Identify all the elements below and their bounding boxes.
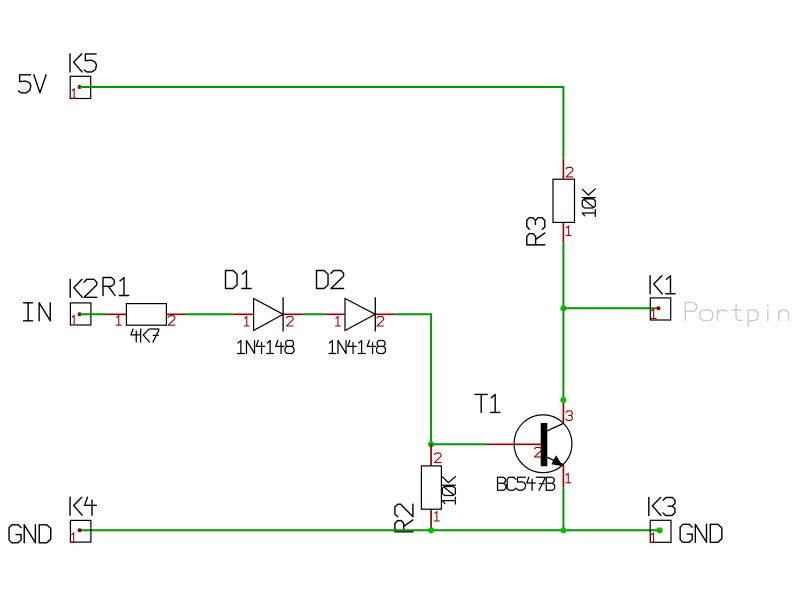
label K4 — [70, 497, 96, 515]
value 4K7 of R1 — [131, 329, 159, 342]
wire 5V vertical to R3 — [562, 86, 564, 159]
pin 1 of K5 — [72, 89, 77, 99]
net label 5V — [19, 75, 47, 93]
pin 1 of K2 — [72, 315, 77, 325]
pin 1 of R3 — [566, 226, 571, 236]
connector K5 — [70, 76, 91, 98]
label K3 — [649, 498, 675, 516]
pin 1 of K3 — [651, 533, 656, 543]
wire K2 to R1 — [80, 313, 107, 315]
connector K1 — [650, 298, 670, 320]
label K5 — [70, 54, 96, 72]
wire D2 down to node B — [395, 314, 431, 444]
label R3 — [527, 218, 545, 245]
pin 1 of R2 — [434, 512, 439, 522]
pin 1 of K1 — [651, 309, 656, 319]
pin 1 of D2 — [336, 317, 341, 327]
wire R1 to D1 — [186, 313, 233, 315]
wire 5V horizontal — [80, 86, 564, 88]
pin 3 of T1 — [566, 411, 572, 421]
net label GND right — [680, 524, 722, 542]
node B junction — [428, 441, 434, 447]
value 10K of R2 — [442, 477, 455, 504]
label K1 — [650, 276, 675, 294]
value 10K of R3 — [582, 189, 595, 216]
node E junction at K3 — [657, 527, 663, 533]
pin 2 of D2 — [377, 317, 384, 327]
pin 2 of R3 — [566, 167, 573, 177]
net label IN — [24, 303, 51, 321]
diode D1 — [234, 297, 303, 331]
resistor R1 — [107, 304, 187, 326]
pin 2 of D1 — [287, 317, 294, 327]
label D1 — [226, 271, 252, 289]
pin 1 of T1 — [566, 473, 571, 483]
label K2 — [70, 279, 96, 297]
label R1 — [103, 278, 129, 296]
pin 2 of T1 — [535, 447, 542, 457]
net label GND left — [9, 525, 51, 543]
wire to K1 — [563, 307, 658, 309]
label D2 — [317, 271, 344, 289]
value 1N4148 of D2 — [329, 341, 385, 354]
pin 1 of K4 — [71, 533, 76, 543]
node C junction — [428, 527, 434, 533]
pin 1 of D1 — [244, 317, 249, 327]
node A junction — [560, 305, 566, 311]
pin 2 of R1 — [168, 316, 175, 326]
wire GND rail — [80, 529, 660, 531]
wire node B to T1 base — [431, 443, 486, 445]
wire T1 emitter to GND rail — [562, 487, 564, 530]
node F junction at collector — [560, 397, 566, 403]
transistor T1 — [486, 403, 572, 487]
resistor R2 — [421, 444, 441, 529]
pin 2 of R2 — [434, 453, 441, 463]
wire R3 to T1 collector — [562, 242, 564, 403]
resistor R3 — [553, 159, 575, 243]
node D junction — [560, 527, 566, 533]
label T1 — [475, 394, 500, 412]
pin 1 of R1 — [116, 316, 121, 326]
connector K2 — [70, 303, 91, 325]
wire D1 to D2 — [303, 313, 325, 315]
net label Portpin — [685, 303, 788, 327]
value 1N4148 of D1 — [238, 341, 294, 354]
label R2 — [395, 504, 413, 532]
value BC547B of T1 — [498, 477, 555, 490]
diode D2 — [325, 297, 395, 331]
connector K4 — [70, 520, 91, 542]
connector K3 — [650, 520, 671, 542]
